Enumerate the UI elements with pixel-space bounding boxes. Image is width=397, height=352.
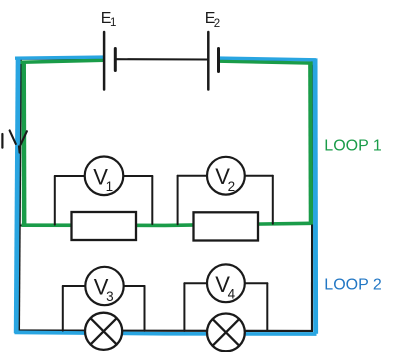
loop 1 highlight (green) left vertical — [21, 61, 26, 227]
voltmeter V3 — [85, 267, 123, 305]
svg-text:4: 4 — [228, 287, 236, 302]
loop 1 highlight (green) top-right segment — [219, 61, 315, 63]
wire middle (black, resistor branch) — [20, 224, 312, 226]
wire right (black) — [311, 60, 313, 331]
svg-text:1: 1 — [106, 179, 114, 194]
wire left (black) — [19, 58, 21, 331]
lamp (right, under V4) — [207, 314, 245, 352]
lamp (left, under V3) — [85, 313, 122, 350]
battery E2 — [208, 32, 218, 90]
loop 2 highlight (blue) left vertical — [16, 57, 18, 333]
label E2 — [205, 10, 220, 30]
resistor (left, under V1) — [72, 212, 137, 240]
wire V2 leads — [178, 176, 273, 225]
loop 1 highlight (green) top-left segment — [17, 60, 105, 62]
wire V3 leads — [63, 286, 145, 331]
current arrow I on left wire — [10, 130, 27, 152]
voltmeter V1 — [85, 157, 124, 196]
wire bottom (black, lamp branch) — [17, 329, 313, 332]
svg-text:1: 1 — [110, 17, 116, 29]
label I — [1, 134, 3, 148]
loop 1 highlight (green) right vertical — [308, 63, 313, 225]
label E1 — [101, 10, 117, 29]
svg-text:2: 2 — [214, 18, 220, 30]
wire top (black, battery branch) — [20, 59, 312, 61]
svg-text:3: 3 — [106, 289, 114, 304]
wire V4 leads — [184, 283, 267, 331]
battery E1 — [104, 32, 115, 90]
loop 2 highlight (blue) top-right segment — [219, 58, 316, 60]
svg-text:2: 2 — [228, 179, 236, 194]
svg-text:LOOP 2: LOOP 2 — [324, 276, 382, 293]
loop 2 highlight (blue) right vertical — [313, 58, 318, 333]
voltmeter V2 — [207, 157, 245, 195]
resistor (right, under V2) — [194, 212, 259, 240]
loop 2 highlight (blue) bottom wire — [15, 332, 317, 334]
loop 2 highlight (blue) top-left segment — [15, 57, 104, 58]
loop 1 highlight (green) middle wire — [22, 223, 312, 225]
svg-text:LOOP 1: LOOP 1 — [324, 137, 382, 154]
voltmeter V4 — [207, 264, 245, 302]
wire V1 leads — [55, 176, 153, 225]
